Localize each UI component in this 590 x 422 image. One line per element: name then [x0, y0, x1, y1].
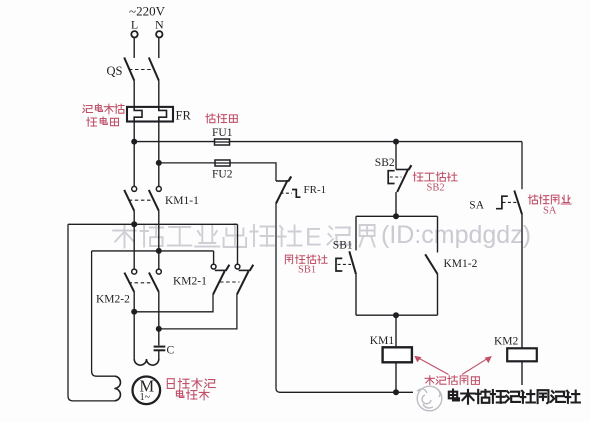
label 停止按钮 SB2 (stop button) [413, 172, 457, 181]
wire KM1 coil to bottom rail [395, 362, 397, 392]
contact KM2-2 (main, double pole) [96, 224, 161, 305]
junction box bottom to KM1 coil [393, 312, 399, 318]
svg-text:C: C [167, 345, 175, 357]
label 过热保护继电器 (thermal protection relay) [83, 104, 124, 114]
wire N junction left to inner rail / right to KM2-1 left pole [92, 250, 214, 252]
wire FR-1 down to bottom rail [276, 204, 280, 393]
wire SA down to KM2 coil [521, 214, 523, 348]
wire top right corner down to SA [521, 142, 523, 190]
wire inner-left rail down to aux winding top [92, 251, 115, 376]
wire QS to FR (N) [158, 81, 160, 107]
wire box left upper [355, 216, 357, 250]
thermal relay FR heater element [127, 107, 191, 123]
contact KM2-1 (main, double pole, mirrored) [173, 224, 253, 294]
svg-text:~220V: ~220V [129, 4, 166, 19]
contact KM1-2 (NO auxiliary) [425, 254, 477, 274]
svg-text:SA: SA [543, 206, 557, 217]
junction L lower [131, 309, 137, 315]
wire box left lower [355, 274, 357, 315]
svg-text:(ID:cmpdgdz): (ID:cmpdgdz) [381, 221, 531, 249]
svg-text:KM2: KM2 [494, 336, 519, 348]
label 熔断器 (fuse) [206, 114, 237, 123]
wire junction down to capacitor [158, 329, 160, 346]
wire box bottom to KM1 coil [395, 315, 397, 347]
capacitor C [154, 345, 175, 360]
junction L rail x FU1 wire [131, 139, 137, 145]
switch SA (rotary) [469, 191, 522, 215]
svg-text:SB1: SB1 [298, 265, 316, 276]
svg-text:SA: SA [469, 200, 484, 212]
wire KM1-1 N to junction [158, 211, 160, 248]
label 启动按钮 SB1 (start button) [285, 255, 327, 264]
wire L junction down to main winding [133, 312, 135, 359]
wire outer-left rail down to aux winding [68, 224, 114, 401]
coil KM1 [370, 335, 412, 362]
label 交流接触器 (AC contactor) with arrows [414, 356, 492, 386]
junction SB2 branch on top wire [393, 139, 399, 145]
fuse FU1 [212, 127, 233, 145]
wire box right lower [437, 274, 439, 315]
wire FU2 horizontal to FR-1 [159, 163, 276, 181]
main winding (two arcs) [134, 359, 159, 365]
wire junction left to outer rail and right to KM2-1 [68, 223, 238, 225]
wire parallel box top edge [356, 215, 438, 217]
auxiliary winding (two arcs) [114, 376, 120, 401]
button SB2 (stop, NC) [375, 142, 412, 217]
svg-text:L: L [131, 18, 138, 32]
svg-text:QS: QS [107, 64, 123, 78]
switch QS [107, 58, 159, 81]
logo icon (faint) [413, 385, 581, 411]
svg-text:FR: FR [176, 109, 192, 123]
wire parallel box bottom edge [356, 314, 438, 316]
wire FU1 horizontal to right rail [134, 141, 522, 143]
watermark text [113, 221, 531, 252]
svg-text:FU1: FU1 [212, 127, 233, 139]
svg-text:FR-1: FR-1 [304, 184, 327, 196]
svg-text:1~: 1~ [140, 392, 151, 403]
wire box right upper [437, 216, 439, 252]
junction L rail feed [131, 221, 137, 227]
terminal N [155, 17, 164, 37]
wire FR to KM1-1 (L rail) [133, 122, 135, 187]
wire N terminal to QS [158, 38, 160, 58]
motor M 1~ [133, 377, 161, 405]
junction N rail feed [156, 248, 162, 254]
wire L terminal to QS [133, 38, 135, 58]
terminal L [131, 18, 138, 38]
junction capacitor feed [156, 326, 162, 332]
wire KM2-2 L down to junction [133, 292, 135, 312]
svg-text:KM1-2: KM1-2 [444, 258, 478, 270]
contact KM1-1 (main, double pole) [124, 186, 199, 210]
contact FR-1 (NC thermal relay contact) [276, 176, 326, 203]
junction N rail x FU2 wire [156, 160, 162, 166]
wire KM2-1 right pole down and across [159, 295, 237, 329]
svg-text:KM1: KM1 [370, 335, 395, 347]
wire KM2-2 N down to capacitor junction [158, 292, 160, 329]
wire KM1-1 L to junction [133, 211, 135, 225]
button SB1 (start, NO) [333, 240, 356, 275]
wire KM2-1 left pole down and across [134, 295, 213, 312]
label 旋转开关 SA (rotary switch) [528, 195, 571, 204]
label 单相交流电动机 (single-phase AC motor) [167, 378, 215, 389]
svg-text:KM2-2: KM2-2 [96, 294, 130, 306]
junction box top (SB2 to parallel branches) [393, 213, 399, 219]
wire KM2 coil to bottom rail [521, 361, 523, 392]
bottom control rail [280, 391, 522, 393]
svg-text:E: E [305, 224, 322, 252]
svg-text:KM2-1: KM2-1 [173, 276, 207, 288]
svg-text:SB1: SB1 [333, 240, 353, 252]
svg-text:N: N [155, 17, 164, 31]
wire FR to KM1-1 (N rail) [158, 122, 160, 187]
fuse FU2 [212, 160, 233, 181]
junction KM1 at bottom rail [393, 389, 399, 395]
svg-text:KM1-1: KM1-1 [165, 195, 199, 207]
logo text 电机控制设计加油站 [449, 390, 580, 404]
svg-text:SB2: SB2 [427, 183, 445, 194]
svg-text:FU2: FU2 [212, 169, 233, 181]
svg-text:SB2: SB2 [375, 157, 395, 169]
coil KM2 [494, 336, 537, 362]
wire QS to FR (L) [133, 81, 135, 107]
